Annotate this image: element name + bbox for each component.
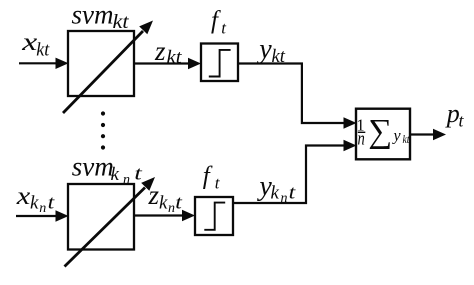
- svg-text:z: z: [148, 180, 160, 210]
- svg-text:k: k: [271, 183, 280, 204]
- svg-text:y: y: [392, 128, 402, 145]
- svg-text:x: x: [21, 29, 37, 56]
- svg-text:t: t: [175, 193, 182, 214]
- svg-text:n: n: [168, 201, 175, 216]
- svg-text:k: k: [30, 193, 39, 214]
- svg-text:k: k: [111, 164, 120, 185]
- svg-text:t: t: [134, 164, 143, 185]
- svg-text:kt: kt: [403, 134, 411, 146]
- svg-text:y: y: [256, 34, 272, 65]
- svg-text:svm: svm: [72, 0, 114, 30]
- svg-text:n: n: [123, 173, 130, 188]
- svg-text:svm: svm: [72, 152, 114, 182]
- svg-text:kt: kt: [167, 47, 183, 68]
- svg-text:kt: kt: [272, 46, 286, 67]
- svg-text:n: n: [39, 201, 46, 216]
- svg-text:n: n: [281, 191, 288, 206]
- svg-text:kt: kt: [36, 41, 50, 61]
- svg-text:n: n: [358, 129, 365, 150]
- svg-text:t: t: [48, 193, 55, 214]
- svg-text:k: k: [159, 193, 168, 214]
- svg-text:z: z: [154, 36, 166, 66]
- svg-text:∑: ∑: [368, 113, 392, 150]
- svg-text:t: t: [289, 183, 296, 204]
- svg-text:x: x: [16, 183, 31, 210]
- svg-text:kt: kt: [113, 12, 130, 33]
